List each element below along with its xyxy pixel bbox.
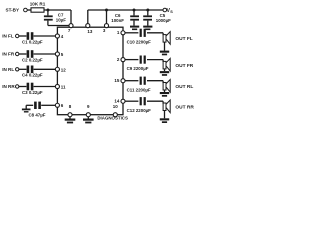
svg-text:1000µF: 1000µF bbox=[156, 18, 171, 23]
svg-text:IN FR: IN FR bbox=[2, 52, 15, 57]
svg-text:IN FL: IN FL bbox=[2, 34, 14, 39]
svg-text:C10 2200µF: C10 2200µF bbox=[127, 39, 152, 44]
svg-text:IN RR: IN RR bbox=[2, 84, 15, 89]
svg-text:IN RL: IN RL bbox=[2, 67, 14, 72]
svg-text:C8 47µF: C8 47µF bbox=[29, 113, 46, 118]
svg-text:12: 12 bbox=[61, 67, 67, 72]
svg-text:10: 10 bbox=[113, 104, 119, 109]
svg-text:C2 0.22µF: C2 0.22µF bbox=[22, 57, 43, 62]
svg-text:OUT FR: OUT FR bbox=[175, 63, 193, 69]
svg-text:15: 15 bbox=[114, 78, 120, 83]
svg-text:DIAGNOSTICS: DIAGNOSTICS bbox=[97, 116, 128, 121]
svg-text:10K R1: 10K R1 bbox=[30, 1, 46, 6]
svg-text:S: S bbox=[170, 10, 173, 14]
svg-text:100nF: 100nF bbox=[111, 18, 124, 23]
svg-text:13: 13 bbox=[87, 29, 93, 34]
svg-text:C9 2200µF: C9 2200µF bbox=[127, 66, 149, 71]
svg-text:C12 2200µF: C12 2200µF bbox=[127, 108, 152, 113]
svg-text:OUT FL: OUT FL bbox=[175, 36, 192, 42]
svg-text:11: 11 bbox=[61, 85, 66, 90]
svg-text:C11 2200µF: C11 2200µF bbox=[127, 87, 151, 92]
svg-text:OUT RR: OUT RR bbox=[175, 104, 194, 110]
svg-text:C4 0.22µF: C4 0.22µF bbox=[22, 73, 43, 78]
svg-text:ST-BY: ST-BY bbox=[6, 7, 20, 12]
svg-text:OUT RL: OUT RL bbox=[175, 84, 193, 90]
svg-text:C3 0.22µF: C3 0.22µF bbox=[22, 90, 43, 95]
svg-text:14: 14 bbox=[114, 99, 120, 104]
svg-text:10µF: 10µF bbox=[56, 17, 66, 22]
svg-text:C1 0.22µF: C1 0.22µF bbox=[22, 39, 43, 44]
